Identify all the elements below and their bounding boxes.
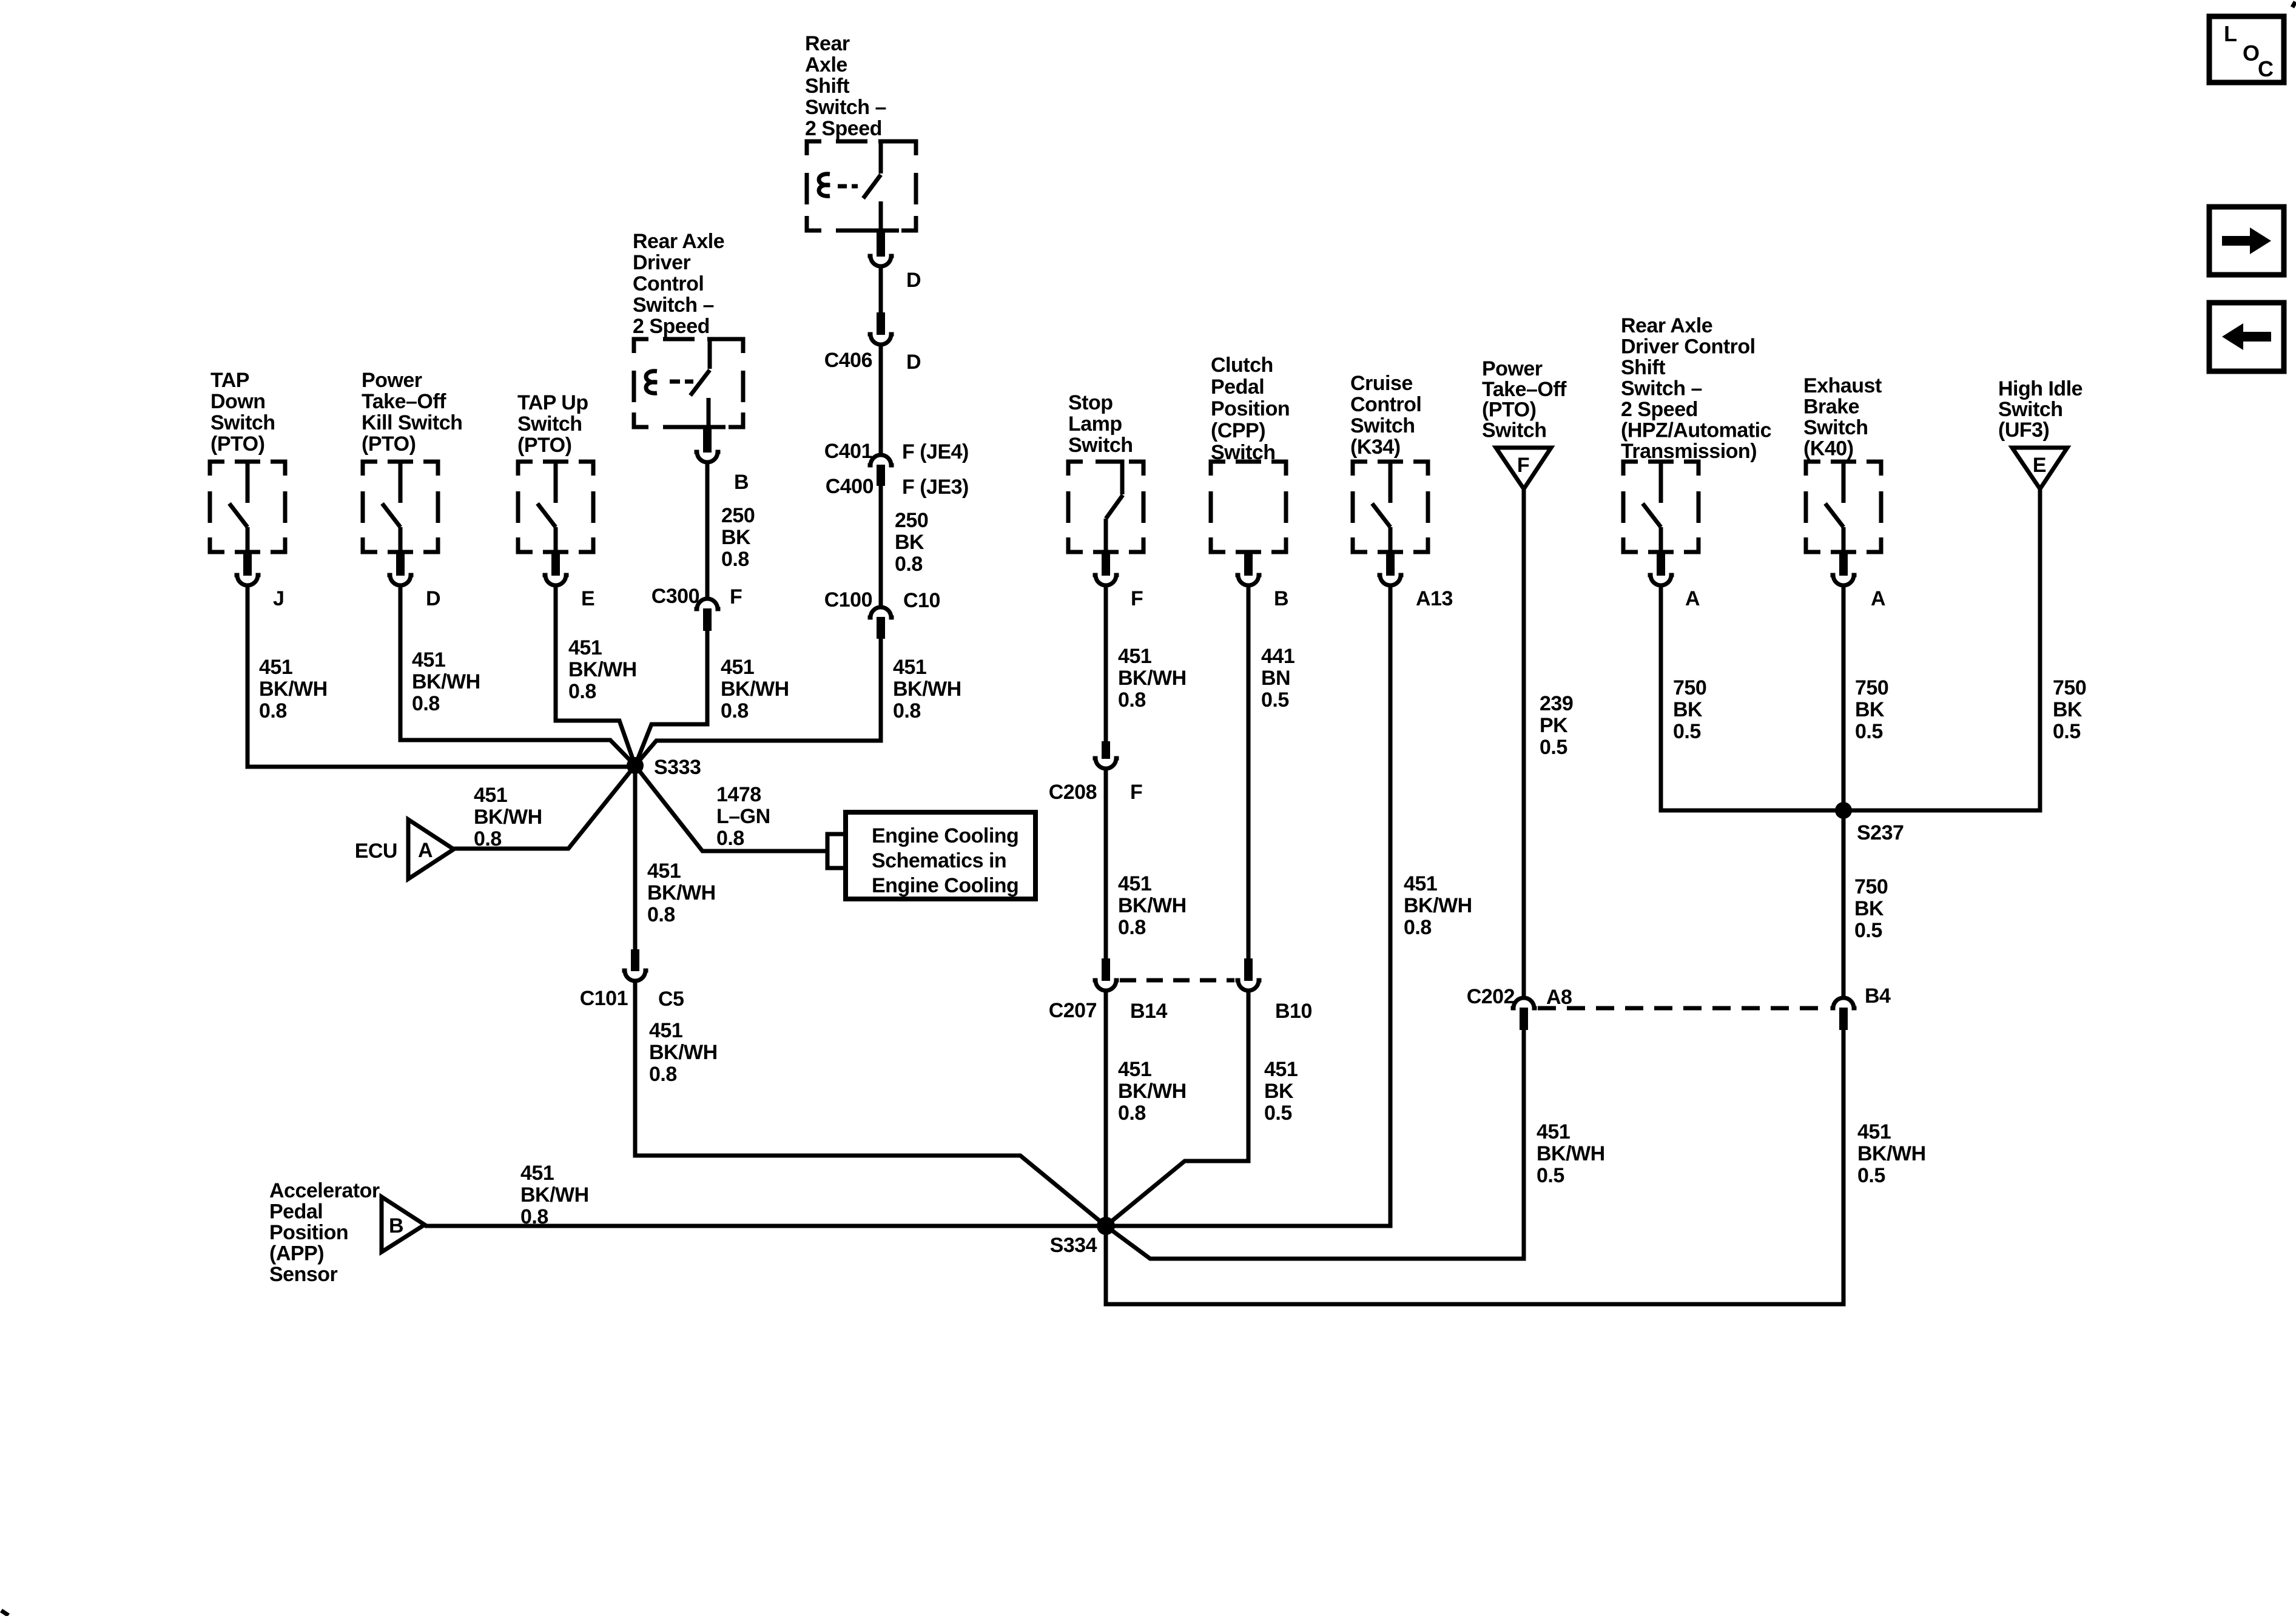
connector B4 (C202 mate)	[1831, 985, 1891, 1030]
connector C207 pin B14	[1049, 958, 1168, 1023]
connector B10 (C207 mate)	[1236, 958, 1312, 1023]
svg-text:B4: B4	[1865, 985, 1891, 1008]
svg-text:0.5: 0.5	[1673, 720, 1701, 743]
connector bracket to Engine Cooling schematic	[827, 834, 846, 868]
wire 451 BK/WH 0.5 from B4 to S334	[1106, 1030, 1926, 1304]
wire 250 BK 0.8 from B to C300	[707, 462, 755, 597]
svg-text:BK/WH: BK/WH	[649, 1041, 718, 1064]
wire 451 BK/WH 0.8 from S333 to ECU A	[454, 766, 635, 850]
connector C100 pin C10	[824, 588, 940, 639]
svg-text:BK: BK	[1673, 698, 1703, 721]
svg-text:BK/WH: BK/WH	[1404, 894, 1472, 917]
svg-text:2 Speed: 2 Speed	[1621, 398, 1698, 421]
svg-text:451: 451	[1537, 1120, 1570, 1143]
svg-text:BK/WH: BK/WH	[1118, 667, 1187, 690]
svg-text:BK/WH: BK/WH	[1118, 894, 1187, 917]
svg-text:451: 451	[721, 656, 754, 679]
wire 750 BK 0.5 from High Idle Switch to S237	[1843, 489, 2086, 810]
svg-text:(PTO): (PTO)	[362, 433, 416, 456]
svg-text:D: D	[906, 269, 921, 292]
svg-text:Cruise: Cruise	[1350, 372, 1413, 395]
svg-text:BK/WH: BK/WH	[259, 678, 328, 701]
svg-text:F: F	[730, 585, 742, 608]
svg-text:L–GN: L–GN	[716, 805, 770, 828]
wire 451 BK 0.5 from B10 to S334	[1106, 991, 1298, 1226]
svg-text:451: 451	[1118, 872, 1151, 895]
svg-text:Engine Cooling: Engine Cooling	[872, 874, 1018, 897]
svg-text:451: 451	[568, 636, 602, 659]
svg-text:0.8: 0.8	[716, 827, 744, 850]
svg-text:451: 451	[1118, 1058, 1151, 1081]
connector pin A of RADCS switch	[1648, 553, 1700, 610]
svg-text:Pedal: Pedal	[1211, 375, 1264, 399]
svg-text:BK/WH: BK/WH	[893, 678, 961, 701]
connector C406 pin D	[824, 312, 921, 374]
svg-text:Switch: Switch	[1803, 416, 1868, 439]
svg-text:B: B	[1274, 587, 1288, 610]
svg-text:(CPP): (CPP)	[1211, 419, 1265, 442]
svg-text:C: C	[2258, 56, 2274, 81]
svg-text:L: L	[2224, 21, 2237, 46]
svg-text:(APP): (APP)	[269, 1242, 324, 1265]
wire 451 BK/WH 0.8 from Stop Lamp Switch to C208	[1106, 585, 1187, 741]
wire 750 BK 0.5 from Exhaust Brake Switch through S237 to B4	[1843, 585, 1888, 998]
wire 1478 L-GN 0.8 from S333 to Engine Cooling	[635, 766, 826, 851]
wire 451 BK/WH 0.8 from C100 to S333	[635, 639, 961, 766]
switch: Cruise Control Switch (K34)	[1350, 372, 1428, 552]
svg-text:F: F	[1130, 781, 1142, 804]
svg-text:(PTO): (PTO)	[517, 434, 571, 457]
svg-text:BK/WH: BK/WH	[647, 881, 716, 904]
svg-text:Switch –: Switch –	[1621, 377, 1702, 400]
svg-text:0.8: 0.8	[1118, 916, 1146, 939]
svg-text:F (JE4): F (JE4)	[902, 440, 969, 463]
svg-text:0.8: 0.8	[647, 903, 675, 926]
svg-text:Switch: Switch	[1350, 414, 1415, 437]
svg-text:Power: Power	[362, 369, 422, 392]
svg-text:Down: Down	[210, 390, 266, 413]
svg-text:0.8: 0.8	[721, 548, 749, 571]
svg-text:C300: C300	[651, 585, 699, 608]
svg-text:Take–Off: Take–Off	[1482, 378, 1567, 401]
svg-text:F: F	[1131, 587, 1143, 610]
svg-text:Pedal: Pedal	[269, 1200, 323, 1224]
svg-text:E: E	[581, 587, 594, 610]
wire 250 BK 0.8 from C400 to C100	[881, 486, 928, 605]
connector C401 pin F (JE4)	[824, 440, 969, 465]
wire 441 BN 0.5 from CPP Switch to B10	[1248, 585, 1294, 958]
svg-text:Rear: Rear	[805, 32, 850, 55]
svg-text:Schematics in: Schematics in	[872, 849, 1006, 872]
svg-text:High Idle: High Idle	[1998, 377, 2082, 400]
svg-text:BK: BK	[1855, 698, 1885, 721]
svg-text:0.8: 0.8	[520, 1205, 548, 1228]
svg-text:TAP: TAP	[210, 369, 249, 392]
svg-text:451: 451	[649, 1019, 682, 1042]
svg-text:750: 750	[1855, 676, 1888, 699]
svg-text:1478: 1478	[716, 783, 761, 806]
svg-text:Rear Axle: Rear Axle	[633, 230, 724, 253]
svg-text:0.5: 0.5	[1264, 1102, 1292, 1125]
switch: Stop Lamp Switch	[1068, 391, 1143, 552]
connector C300 pin F	[651, 585, 742, 631]
svg-text:451: 451	[1264, 1058, 1298, 1081]
svg-text:BN: BN	[1261, 667, 1290, 690]
svg-text:BK/WH: BK/WH	[1537, 1142, 1605, 1165]
switch: Clutch Pedal Position (CPP) Switch	[1211, 354, 1290, 552]
svg-text:BK: BK	[1264, 1080, 1294, 1103]
svg-text:PK: PK	[1540, 714, 1568, 737]
svg-text:Switch: Switch	[1482, 419, 1547, 442]
svg-text:B: B	[389, 1214, 403, 1237]
svg-text:S237: S237	[1857, 821, 1904, 844]
svg-text:J: J	[273, 587, 284, 610]
wire 451 BK/WH 0.5 from C202 to S334	[1106, 1030, 1605, 1259]
connector pin D of PTO Kill Switch	[388, 553, 441, 610]
svg-text:C101: C101	[580, 987, 628, 1010]
svg-text:Control: Control	[1350, 393, 1421, 416]
svg-text:Axle: Axle	[805, 53, 847, 76]
svg-text:E: E	[2033, 454, 2046, 477]
switch: Rear Axle Driver Control Switch - 2 Speed	[633, 230, 743, 427]
svg-text:BK/WH: BK/WH	[1118, 1080, 1187, 1103]
scan artifact top-right corner	[2292, 2, 2295, 7]
connector pin B of CPP Switch	[1236, 553, 1289, 610]
svg-text:S333: S333	[654, 756, 701, 779]
wire 451 BK/WH 0.8 from C300 to S333	[635, 631, 789, 766]
svg-text:441: 441	[1261, 645, 1294, 668]
svg-text:C5: C5	[658, 988, 684, 1011]
svg-text:A: A	[1685, 587, 1700, 610]
svg-text:0.8: 0.8	[721, 699, 749, 722]
svg-text:Clutch: Clutch	[1211, 354, 1273, 377]
connector C101 pin C5	[580, 949, 684, 1011]
svg-text:BK/WH: BK/WH	[474, 806, 542, 829]
connector pin J of TAP Down Switch	[235, 553, 284, 610]
connector pin B of Rear Axle Driver Control Switch	[695, 427, 749, 494]
wire from C406 to C401	[879, 344, 883, 453]
switch: Exhaust Brake Switch (K40)	[1803, 374, 1882, 552]
svg-text:BK: BK	[1854, 897, 1884, 920]
svg-text:451: 451	[1857, 1120, 1891, 1143]
svg-text:C401: C401	[824, 440, 872, 463]
dashed connector link C207-B10	[1120, 978, 1234, 983]
connector pin E of TAP Up Switch	[543, 553, 595, 610]
svg-text:(PTO): (PTO)	[210, 433, 264, 456]
svg-text:Lamp: Lamp	[1068, 412, 1122, 436]
svg-text:TAP Up: TAP Up	[517, 391, 588, 414]
connector C208 pin F	[1049, 741, 1143, 804]
wire 451 BK/WH 0.8 from C101 to S334	[635, 981, 1106, 1226]
svg-text:Driver: Driver	[633, 251, 691, 274]
svg-text:A: A	[418, 839, 433, 862]
svg-text:BK: BK	[721, 526, 751, 549]
svg-text:250: 250	[895, 509, 928, 532]
svg-text:ECU: ECU	[355, 840, 397, 863]
svg-text:A: A	[1871, 587, 1885, 610]
svg-text:B: B	[734, 471, 749, 494]
svg-text:BK/WH: BK/WH	[568, 658, 637, 681]
switch: Power Take-Off Kill Switch (PTO)	[362, 369, 462, 552]
svg-text:Switch –: Switch –	[633, 294, 714, 317]
svg-text:0.8: 0.8	[1404, 916, 1432, 939]
off-page connector: Power Take-Off (PTO) Switch pin F	[1482, 357, 1567, 489]
switch: Rear Axle Driver Control Shift Switch - 2 Speed (HPZ/Automatic Transmission)	[1621, 314, 1771, 552]
svg-text:Brake: Brake	[1803, 395, 1859, 419]
detent dashed link (RADC)	[670, 380, 693, 384]
svg-text:Shift: Shift	[805, 75, 849, 98]
svg-text:BK/WH: BK/WH	[1857, 1142, 1926, 1165]
svg-text:F: F	[1517, 454, 1529, 477]
wire 451 BK/WH 0.8 from D to S333	[400, 585, 635, 766]
svg-text:239: 239	[1540, 692, 1573, 715]
legend box right-arrow	[2209, 207, 2284, 275]
svg-text:451: 451	[474, 784, 507, 807]
svg-text:D: D	[906, 351, 921, 374]
svg-text:0.5: 0.5	[1261, 688, 1289, 712]
connector pin F of Stop Lamp Switch	[1093, 553, 1143, 610]
svg-text:451: 451	[647, 860, 681, 883]
svg-text:Switch: Switch	[210, 411, 275, 434]
legend box left-arrow	[2209, 303, 2284, 371]
svg-text:BK/WH: BK/WH	[520, 1183, 589, 1207]
svg-text:A8: A8	[1546, 986, 1572, 1009]
connector pin A of Exhaust Brake Switch	[1831, 553, 1886, 610]
svg-text:BK/WH: BK/WH	[721, 678, 789, 701]
detent dashed link (RASS)	[838, 184, 858, 189]
off-page connector: Accelerator Pedal Position (APP) Sensor pin B	[269, 1179, 425, 1286]
svg-text:Exhaust: Exhaust	[1803, 374, 1882, 397]
svg-text:C207: C207	[1049, 999, 1097, 1022]
switch: Rear Axle Shift Switch - 2 Speed	[805, 32, 916, 231]
wire 451 BK/WH 0.8 from C208 to C207	[1106, 768, 1187, 958]
svg-text:0.5: 0.5	[1540, 736, 1567, 759]
svg-text:Position: Position	[1211, 397, 1290, 420]
svg-text:Position: Position	[269, 1221, 348, 1244]
svg-text:F (JE3): F (JE3)	[902, 476, 969, 499]
svg-text:0.8: 0.8	[474, 827, 502, 850]
svg-text:Power: Power	[1482, 357, 1543, 380]
svg-text:0.8: 0.8	[893, 699, 921, 722]
svg-text:451: 451	[259, 656, 292, 679]
wire 451 BK/WH 0.8 from J to S333	[247, 585, 635, 767]
svg-text:750: 750	[2053, 676, 2086, 699]
svg-text:Take–Off: Take–Off	[362, 390, 446, 413]
svg-text:Stop: Stop	[1068, 391, 1113, 414]
svg-text:O: O	[2243, 41, 2260, 66]
svg-text:0.5: 0.5	[1854, 919, 1882, 942]
svg-text:0.8: 0.8	[568, 680, 596, 703]
splice S333	[627, 756, 701, 779]
svg-text:S334: S334	[1050, 1234, 1097, 1257]
off-page connector: High Idle Switch (UF3) pin E	[1998, 377, 2082, 489]
svg-text:0.8: 0.8	[1118, 688, 1146, 712]
wire 750 BK 0.5 from RADCS switch to S237	[1661, 585, 1843, 810]
svg-text:B10: B10	[1275, 1000, 1312, 1023]
svg-text:Shift: Shift	[1621, 356, 1665, 379]
svg-text:Switch: Switch	[1068, 434, 1133, 457]
dashed connector link A8-B4	[1538, 1006, 1829, 1011]
svg-text:451: 451	[893, 656, 926, 679]
svg-text:(UF3): (UF3)	[1998, 419, 2049, 442]
svg-text:Engine Cooling: Engine Cooling	[872, 824, 1018, 847]
svg-text:C202: C202	[1467, 985, 1515, 1008]
svg-text:2 Speed: 2 Speed	[633, 315, 710, 338]
svg-text:0.8: 0.8	[259, 699, 287, 722]
svg-text:Transmission): Transmission)	[1621, 440, 1757, 463]
svg-text:750: 750	[1673, 676, 1706, 699]
wire 451 BK/WH 0.8 from APP Sensor to S334	[425, 1162, 1106, 1228]
svg-text:Switch: Switch	[1998, 398, 2063, 421]
splice S237	[1835, 802, 1904, 844]
connector pin A13 of Cruise Control Switch	[1378, 553, 1453, 610]
svg-text:Switch: Switch	[517, 412, 582, 436]
svg-text:Sensor: Sensor	[269, 1263, 338, 1286]
svg-text:C100: C100	[824, 588, 872, 611]
svg-text:451: 451	[520, 1162, 554, 1185]
svg-text:451: 451	[1404, 872, 1437, 895]
connector C400 pin F (JE3)	[826, 465, 969, 499]
svg-text:C208: C208	[1049, 781, 1097, 804]
wire 451 BK/WH 0.8 from C207 to S334	[1106, 990, 1187, 1226]
svg-text:B14: B14	[1130, 1000, 1167, 1023]
svg-text:C10: C10	[903, 589, 940, 612]
svg-text:(K34): (K34)	[1350, 436, 1401, 459]
svg-text:250: 250	[721, 504, 755, 527]
svg-text:0.8: 0.8	[895, 553, 923, 576]
svg-text:C400: C400	[826, 475, 874, 498]
svg-text:0.8: 0.8	[649, 1063, 677, 1086]
svg-text:451: 451	[1118, 645, 1151, 668]
svg-text:D: D	[426, 587, 440, 610]
svg-text:Rear Axle: Rear Axle	[1621, 314, 1712, 337]
svg-text:BK/WH: BK/WH	[412, 670, 480, 693]
svg-text:BK: BK	[895, 531, 924, 554]
svg-text:0.8: 0.8	[412, 692, 440, 715]
svg-text:0.5: 0.5	[1537, 1164, 1564, 1187]
svg-text:2 Speed: 2 Speed	[805, 117, 882, 140]
switch: TAP Down Switch (PTO)	[210, 369, 285, 552]
svg-text:Control: Control	[633, 272, 704, 295]
svg-text:0.5: 0.5	[1857, 1164, 1885, 1187]
svg-text:0.5: 0.5	[1855, 720, 1883, 743]
wire 451 BK/WH 0.8 from S333 to C101	[635, 766, 716, 949]
svg-text:451: 451	[412, 648, 445, 671]
svg-text:750: 750	[1854, 875, 1888, 898]
wire 451 BK/WH 0.8 from E to S333	[556, 585, 637, 766]
svg-text:Kill Switch: Kill Switch	[362, 411, 462, 434]
svg-text:(K40): (K40)	[1803, 437, 1854, 460]
svg-text:C406: C406	[824, 349, 872, 372]
svg-text:Switch –: Switch –	[805, 96, 886, 119]
svg-text:Accelerator: Accelerator	[269, 1179, 380, 1202]
legend box LOC	[2209, 16, 2284, 82]
svg-text:0.8: 0.8	[1118, 1102, 1146, 1125]
scan artifact bottom-left corner	[1, 1611, 8, 1615]
svg-text:(PTO): (PTO)	[1482, 399, 1536, 422]
svg-text:A13: A13	[1416, 587, 1453, 610]
off-page connector ECU pin A	[355, 820, 454, 879]
wire 239 PK 0.5 from PTO Switch to C202	[1524, 489, 1573, 998]
wire from pigtail D to C406	[879, 266, 883, 312]
svg-text:0.5: 0.5	[2053, 720, 2081, 743]
connector pin D of Rear Axle Shift Switch	[868, 231, 921, 292]
switch: TAP Up Switch (PTO)	[517, 391, 593, 552]
svg-text:Driver Control: Driver Control	[1621, 335, 1756, 358]
connector C202 pin A8	[1467, 985, 1572, 1030]
wire 451 BK/WH 0.8 from Cruise Control Switch to S334	[1106, 585, 1472, 1226]
splice S334	[1050, 1217, 1115, 1257]
reference box: Engine Cooling Schematics	[846, 812, 1035, 899]
svg-text:(HPZ/Automatic: (HPZ/Automatic	[1621, 419, 1771, 442]
svg-text:BK: BK	[2053, 698, 2082, 721]
